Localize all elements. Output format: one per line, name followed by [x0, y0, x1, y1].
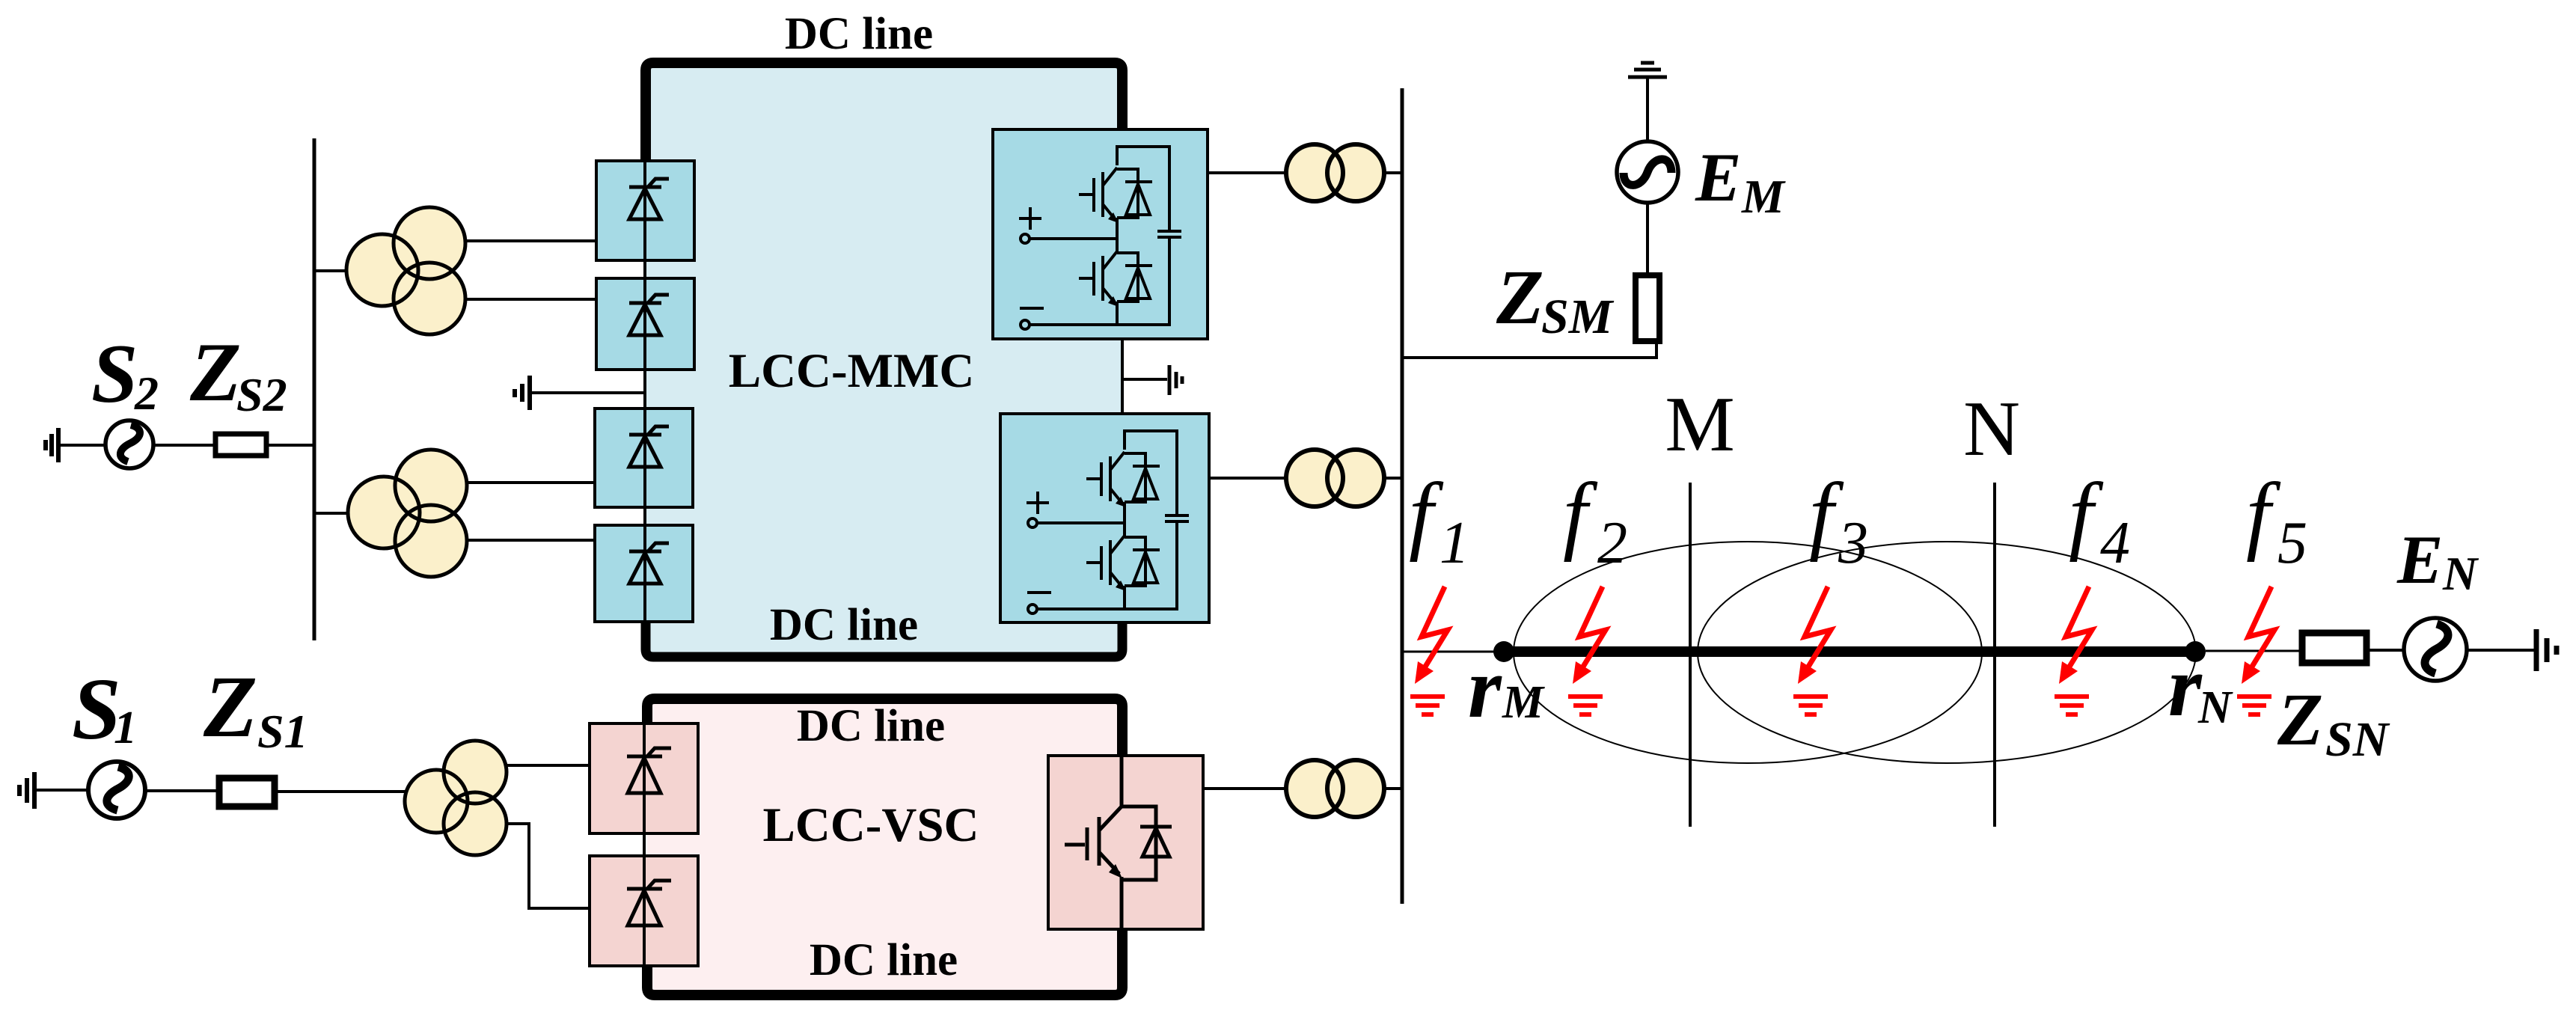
- svg-text:DC line: DC line: [770, 600, 918, 650]
- wire TV1 to valve B6: [505, 824, 590, 908]
- wire ground to SM string: [1122, 378, 1167, 381]
- transmission line rM-rN: [1504, 646, 2195, 657]
- AC source S2: [105, 420, 153, 468]
- svg-text:Z: Z: [1496, 254, 1544, 340]
- MMC submodule SM1: [993, 129, 1208, 339]
- svg-text:SM: SM: [1541, 290, 1615, 344]
- svg-text:5: 5: [2277, 510, 2307, 576]
- fault f1 lightning: [1410, 587, 1448, 714]
- impedance ZS2: [215, 434, 266, 456]
- ground (S1 source): [19, 772, 34, 809]
- svg-text:DC line: DC line: [785, 9, 933, 59]
- wire rN to ZSN: [2206, 650, 2301, 652]
- wire bus to transformer T1: [314, 269, 350, 272]
- wire ZS2 to bus: [266, 444, 316, 447]
- wire ground to valve string: [532, 391, 645, 394]
- svg-text:SN: SN: [2325, 712, 2390, 767]
- fault f5 lightning: [2237, 587, 2274, 714]
- thyristor valve B3: [595, 408, 693, 507]
- transformer TV1 (3-winding): [405, 741, 507, 855]
- AC source EN: [2404, 618, 2467, 681]
- thyristor valve B4: [595, 525, 693, 622]
- ground (EN side): [2536, 629, 2557, 671]
- svg-text:S1: S1: [257, 705, 308, 758]
- thyristor valve B6: [590, 856, 698, 966]
- svg-text:1: 1: [1440, 510, 1469, 576]
- thyristor valve B2: [596, 278, 694, 370]
- transformer T2 (3-winding): [348, 450, 467, 577]
- transformer TM2: [1286, 450, 1384, 506]
- wire ZSN to EN: [2367, 649, 2405, 652]
- node rM: [1493, 641, 1514, 662]
- fault f4 lightning: [2055, 587, 2092, 714]
- svg-text:DC line: DC line: [797, 701, 945, 751]
- thyristor valve B1: [596, 161, 694, 260]
- wire T1 to valve B2: [465, 298, 596, 301]
- wire TV2 to bus: [1384, 787, 1404, 790]
- svg-text:S2: S2: [236, 368, 287, 421]
- AC source EM: [1617, 141, 1678, 203]
- wire EN to ground: [2465, 649, 2534, 652]
- svg-text:2: 2: [1597, 510, 1627, 576]
- svg-text:4: 4: [2100, 510, 2130, 576]
- wire SM1 to SM2: [1121, 339, 1124, 414]
- svg-text:Z: Z: [2277, 678, 2323, 761]
- wire ZSM to bus: [1402, 341, 1656, 358]
- thyristor valve B5: [590, 723, 698, 833]
- valve string line (left): [643, 161, 646, 627]
- impedance ZSN: [2302, 633, 2367, 663]
- transformer T1 (3-winding): [346, 207, 465, 334]
- svg-text:M: M: [1741, 170, 1786, 223]
- wire bus to rM: [1402, 651, 1504, 653]
- LCC-MMC box: [646, 63, 1122, 657]
- svg-text:Z: Z: [203, 658, 257, 756]
- wire IGBT block to transformer TV2: [1203, 787, 1288, 790]
- wire TM2 to bus: [1384, 477, 1404, 480]
- svg-text:3: 3: [1838, 510, 1868, 576]
- impedance ZSM: [1636, 275, 1659, 341]
- svg-text:N: N: [2442, 547, 2479, 600]
- wire bus to transformer T2: [314, 512, 350, 515]
- wire TM1 to bus: [1384, 171, 1404, 174]
- impedance ZS1: [219, 778, 275, 807]
- fault f2 lightning: [1568, 587, 1606, 714]
- wire T2 to valve B4: [467, 539, 595, 542]
- LCC-VSC box: [647, 699, 1122, 995]
- wire EM ground to source: [1646, 79, 1649, 143]
- bus (AC busbar): [1401, 88, 1404, 904]
- svg-text:2: 2: [134, 367, 159, 420]
- svg-text:1: 1: [114, 703, 137, 753]
- ground (MMC left midpoint): [515, 376, 530, 410]
- svg-text:DC line: DC line: [810, 935, 958, 985]
- AC source S1: [88, 762, 145, 818]
- bus S2: [313, 138, 316, 640]
- transformer TV2: [1286, 760, 1384, 817]
- boundary M: [1689, 483, 1692, 827]
- wire S2 ground to source: [60, 444, 105, 447]
- svg-text:E: E: [1695, 139, 1741, 215]
- wire T1 to valve B1: [465, 239, 596, 242]
- protection zone ellipse M: [1514, 542, 1982, 763]
- ground (MMC right midpoint): [1169, 365, 1182, 395]
- wire S2 source to ZS2: [153, 444, 215, 447]
- IGBT block (VSC): [1048, 756, 1203, 929]
- MMC submodule SM2: [1000, 414, 1209, 622]
- transformer TM1: [1286, 144, 1384, 201]
- wire EM source to ZSM: [1646, 201, 1649, 275]
- svg-text:E: E: [2396, 521, 2443, 598]
- ground (EM source, top): [1628, 63, 1667, 77]
- svg-text:N: N: [2197, 682, 2233, 733]
- wire S1 ground to source: [36, 789, 89, 792]
- boundary N: [1993, 483, 1996, 827]
- protection zone ellipse N: [1698, 542, 2196, 763]
- svg-text:Z: Z: [189, 326, 241, 419]
- wire S1 source to ZS1: [144, 789, 218, 792]
- svg-text:LCC-VSC: LCC-VSC: [763, 798, 979, 852]
- wire T2 to valve B3: [467, 481, 595, 484]
- wire SM2 to transformer TM2: [1209, 477, 1288, 480]
- valve string line (VSC left): [643, 723, 646, 969]
- svg-text:S: S: [91, 328, 138, 420]
- wire SM1 to transformer TM1: [1208, 171, 1288, 174]
- fault f3 lightning: [1793, 587, 1831, 714]
- svg-text:r: r: [1468, 640, 1502, 735]
- ground (S2 source): [46, 428, 58, 462]
- wire TV1 to valve B5: [507, 764, 590, 767]
- svg-text:N: N: [1963, 385, 2020, 472]
- svg-text:M: M: [1665, 380, 1734, 468]
- node rN: [2185, 641, 2206, 662]
- wire ZS1 to transformer TV1: [275, 790, 409, 793]
- svg-text:LCC-MMC: LCC-MMC: [729, 344, 975, 398]
